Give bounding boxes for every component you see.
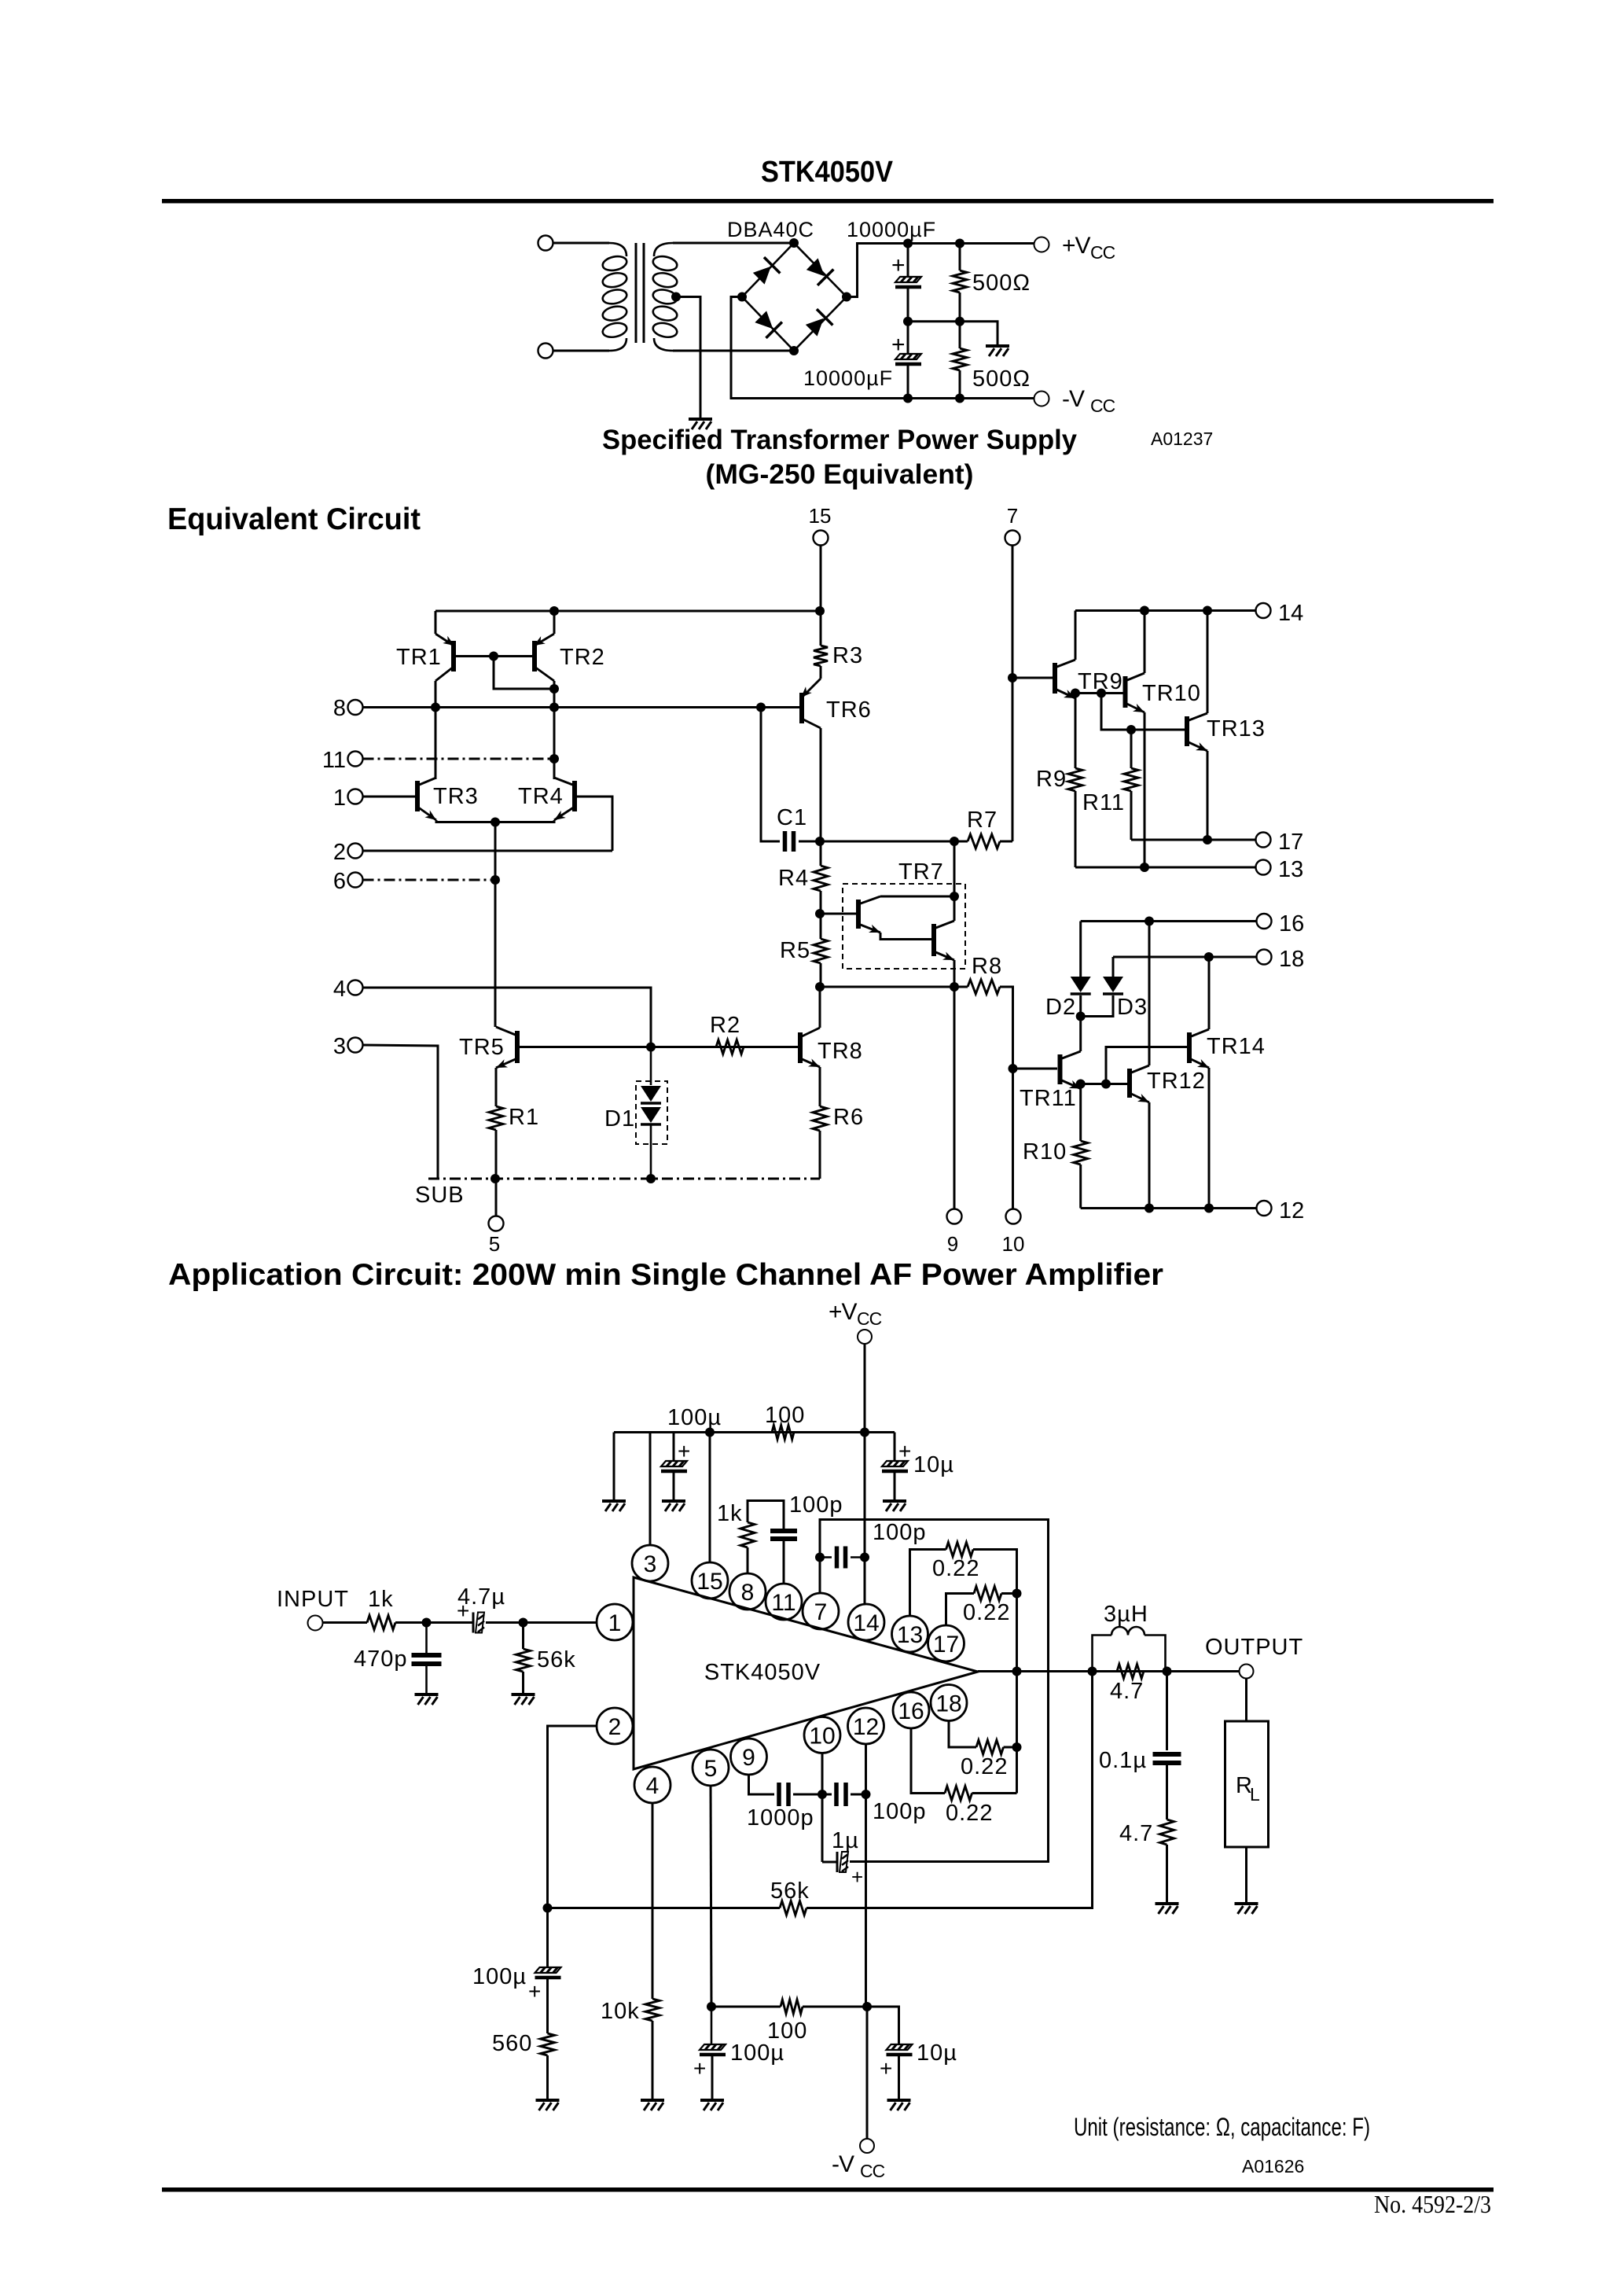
terminal -Vcc: [1034, 392, 1049, 407]
mid rail: [908, 322, 998, 344]
wire R9 bottom lead: [1075, 791, 1077, 867]
node R- bottom: [955, 394, 964, 403]
ground 470p: [415, 1694, 439, 1705]
svg-text:STK4050V: STK4050V: [761, 156, 894, 189]
transistor TR13: [1187, 713, 1209, 755]
wire C1 left branch: [761, 708, 780, 842]
node TR13 base R11: [1126, 725, 1136, 734]
svg-text:CC: CC: [857, 1308, 882, 1329]
wire pin18 down: [949, 1721, 976, 1748]
wire R6 to SUB: [819, 1131, 821, 1179]
capacitor 100p pin11: [770, 1531, 797, 1539]
terminal IC pin 4: [634, 1767, 671, 1803]
resistor 4.7 zobel: [1160, 1820, 1174, 1845]
transistor TR7a: [858, 896, 882, 936]
svg-text:R4: R4: [778, 866, 809, 891]
svg-text:0.1µ: 0.1µ: [1099, 1748, 1147, 1773]
node bridge plus: [842, 293, 851, 302]
wire C1 to node: [799, 841, 820, 843]
wire output to 0.1u: [1166, 1672, 1168, 1751]
wire SUB rail dashdot: [428, 1178, 820, 1180]
svg-text:100: 100: [765, 1403, 805, 1428]
terminal IC pin 2: [597, 1708, 633, 1744]
transistor TR3: [417, 778, 439, 823]
node mid left: [903, 317, 913, 326]
wire rail to pin3: [649, 1433, 652, 1546]
inductor 3uH: [1093, 1636, 1112, 1672]
capacitor 100u NFB: [535, 1967, 561, 1978]
wire TR13 collector up: [1207, 611, 1209, 714]
wire node to 56k: [522, 1623, 524, 1650]
svg-text:11: 11: [322, 748, 346, 773]
resistor 100 bottom: [781, 2000, 803, 2014]
wire 1k 100p bridge: [748, 1501, 784, 1529]
transistor TR4: [552, 778, 575, 824]
wire 100p to pin11: [783, 1541, 785, 1584]
wire 10u to ground: [894, 1472, 896, 1499]
node R10 top: [1076, 1080, 1086, 1089]
terminal input: [308, 1616, 323, 1631]
wire TR11 base: [1013, 1068, 1058, 1070]
wire TR8 emitter to R6: [819, 1067, 821, 1106]
svg-text:9: 9: [947, 1232, 958, 1256]
svg-text:-V: -V: [1062, 386, 1085, 412]
ground zobel: [1156, 1904, 1179, 1914]
node -Vcc branch: [862, 2002, 872, 2011]
node secondary center tap: [671, 293, 681, 302]
svg-text:100µ: 100µ: [472, 1964, 527, 1989]
svg-text:TR7: TR7: [898, 859, 944, 885]
svg-text:R11: R11: [1082, 790, 1125, 815]
wire pin12 down to -Vcc: [865, 1744, 867, 2007]
node +Vcc rail: [860, 1428, 869, 1437]
terminal IC pin 3: [632, 1545, 668, 1581]
resistor 560: [541, 2033, 555, 2055]
svg-text:INPUT: INPUT: [277, 1587, 349, 1612]
resistor R1: [489, 1106, 503, 1130]
wire R7 right: [1000, 841, 1012, 843]
svg-text:+: +: [693, 2056, 706, 2081]
svg-text:500Ω: 500Ω: [972, 366, 1031, 392]
node 100p right: [860, 1553, 869, 1562]
wire pin11 dashdot: [363, 758, 555, 760]
diode D1: [650, 1047, 652, 1086]
wire R8 right to pin10: [1000, 987, 1013, 1209]
wire TR13 base: [1131, 729, 1185, 731]
wire secondary bottom to bridge: [673, 350, 794, 352]
wire primary top lead: [553, 242, 609, 245]
svg-text:8: 8: [333, 696, 346, 721]
wire pin5 down: [711, 1786, 711, 2007]
wire output line: [978, 1670, 1247, 1672]
svg-text:+V: +V: [829, 1299, 858, 1325]
svg-text:0.22: 0.22: [961, 1754, 1008, 1779]
svg-text:+: +: [678, 1439, 690, 1463]
wire pin8 rail: [363, 706, 800, 708]
wire TR4 base riser: [575, 797, 612, 851]
svg-text:3: 3: [333, 1034, 346, 1059]
terminal IC pin 10: [804, 1717, 840, 1753]
svg-text:10000µF: 10000µF: [803, 366, 893, 390]
resistor 1k: [740, 1522, 755, 1547]
svg-text:+V: +V: [1062, 233, 1091, 259]
wire R5 to node: [820, 963, 822, 987]
transformer T1 core: [636, 243, 644, 343]
terminal IC pin 5: [693, 1750, 729, 1786]
wire 56k NFB right: [806, 1672, 1093, 1908]
svg-text:56k: 56k: [537, 1647, 576, 1672]
terminal +Vcc app: [858, 1330, 872, 1344]
resistor 500ohm upper: [953, 270, 967, 293]
transformer T1 primary terminal top: [538, 236, 553, 251]
resistor 0.22 a: [946, 1543, 974, 1557]
bridge diode upper-right: [804, 256, 833, 285]
terminal IC pin 14: [848, 1604, 884, 1640]
wire TR1 TR2 base tie: [454, 655, 535, 657]
node bridge AC bottom: [789, 346, 799, 355]
wire node to R5: [820, 914, 822, 939]
wire pin16 rail: [1081, 920, 1257, 922]
wire node to 100: [711, 2006, 781, 2008]
svg-text:(MG-250 Equivalent): (MG-250 Equivalent): [706, 459, 974, 490]
resistor 56k input: [516, 1649, 531, 1672]
resistor R6: [813, 1106, 827, 1131]
wire to pin1: [524, 1621, 597, 1624]
terminal IC pin 7: [803, 1593, 839, 1629]
svg-text:100p: 100p: [873, 1799, 927, 1824]
transistor TR6: [798, 679, 821, 728]
node TR1 collector on rail8: [431, 703, 440, 712]
svg-text:9: 9: [742, 1745, 755, 1771]
svg-text:100µ: 100µ: [730, 2040, 784, 2066]
wire pin7 to TR9 base: [1012, 677, 1053, 679]
resistor R10: [1074, 1141, 1088, 1165]
ground 560: [536, 2100, 560, 2110]
svg-text:0.22: 0.22: [932, 1556, 979, 1581]
svg-text:1: 1: [333, 786, 346, 811]
wire pin10 down: [821, 1753, 824, 1863]
svg-text:L: L: [1250, 1784, 1260, 1805]
terminal IC pin 13: [892, 1616, 928, 1652]
capacitor 470p: [425, 1623, 428, 1656]
resistor 0.22 c: [976, 1740, 1004, 1754]
node TR2 collector tie: [549, 684, 559, 694]
wire pin9 riser: [953, 987, 956, 1209]
wire TR13 emitter down: [1207, 751, 1209, 840]
svg-text:1k: 1k: [368, 1587, 394, 1612]
wire pin2 down: [548, 1726, 597, 1967]
capacitor 0.1u: [1153, 1754, 1181, 1763]
svg-text:STK4050V: STK4050V: [704, 1660, 821, 1685]
node R11 branch: [1097, 689, 1106, 698]
svg-text:SUB: SUB: [415, 1183, 465, 1208]
node decouple minus: [707, 2002, 716, 2011]
resistor 500ohm lower: [953, 348, 967, 370]
node bus b: [1012, 1589, 1022, 1599]
node C+ top: [903, 239, 913, 248]
node D2 D3 join: [1076, 1012, 1086, 1021]
wire 56k NFB rail: [548, 1907, 781, 1909]
terminal pin 1: [348, 789, 363, 804]
node R4 R5 TR7 base: [815, 909, 825, 918]
svg-text:100p: 100p: [873, 1520, 927, 1545]
terminal pin 9: [947, 1209, 962, 1224]
svg-text:8: 8: [741, 1580, 755, 1606]
svg-text:+: +: [851, 1865, 863, 1889]
capacitor 10u bottom: [887, 2044, 913, 2055]
wire cap to mid rail: [907, 289, 909, 322]
node pin12 100p: [862, 1790, 871, 1799]
svg-text:17: 17: [1278, 830, 1303, 855]
wire pin14 rail: [1075, 609, 1256, 612]
ground 56k input: [512, 1694, 535, 1705]
wire node to 4.7u: [427, 1621, 474, 1624]
svg-text:16: 16: [1279, 911, 1304, 936]
svg-text:A01626: A01626: [1242, 2156, 1304, 2176]
wire R1 to SUB rail: [495, 1130, 498, 1179]
node R7 left: [950, 837, 959, 846]
wire 100u to ground: [673, 1472, 675, 1499]
capacitor 1000p: [779, 1783, 788, 1806]
wire rail to ground left: [613, 1433, 615, 1500]
wire TR1 TR2 emitter rail: [435, 610, 821, 613]
wire TR5 base line: [517, 1046, 798, 1048]
resistor R5: [814, 939, 828, 963]
svg-text:7: 7: [1007, 504, 1018, 528]
capacitor C1: [785, 831, 794, 852]
svg-text:R2: R2: [710, 1013, 740, 1038]
terminal IC pin 17: [928, 1625, 964, 1661]
svg-text:15: 15: [696, 1569, 722, 1595]
terminal IC pin 8: [729, 1573, 766, 1610]
node coil left: [1088, 1667, 1097, 1676]
svg-text:TR6: TR6: [826, 697, 872, 723]
svg-text:2: 2: [608, 1714, 622, 1740]
capacitor 100p bottom: [836, 1783, 846, 1806]
svg-text:16: 16: [898, 1698, 924, 1724]
terminal +Vcc: [1034, 237, 1049, 252]
wire pin18 to D3: [1112, 957, 1115, 977]
node 56k input: [519, 1618, 528, 1628]
wire rail to TR9 collector: [1075, 611, 1077, 660]
wire R10 top lead: [1079, 1084, 1082, 1142]
node TR10 emitter pin13: [1140, 863, 1149, 872]
resistor R8: [968, 980, 1000, 994]
wire TR7b emitter down: [953, 960, 956, 987]
node TR13 emitter pin17: [1203, 835, 1212, 844]
resistor 4.7 damping: [1117, 1665, 1144, 1679]
bridge rectifier DBA40C outline: [742, 243, 847, 351]
svg-text:D2: D2: [1045, 995, 1076, 1020]
svg-text:TR10: TR10: [1142, 681, 1201, 706]
terminal output: [1240, 1665, 1254, 1679]
wire TR6 collector down: [820, 728, 822, 841]
terminal pin 7: [1005, 531, 1020, 546]
wire pin18 rail: [1113, 956, 1257, 959]
wire TR11 emitter to TR12 base: [1081, 1084, 1127, 1089]
svg-text:TR14: TR14: [1207, 1034, 1266, 1059]
wire 1k to node: [395, 1621, 427, 1624]
node bus c: [1012, 1742, 1022, 1752]
ground 100u: [662, 1501, 685, 1511]
node TR2 collector on rail8: [549, 703, 559, 712]
svg-text:10µ: 10µ: [913, 1452, 954, 1477]
wire pin9 to 1000p: [749, 1775, 775, 1794]
transistor TR8: [800, 1028, 821, 1071]
-Vcc rail: [908, 397, 1034, 399]
node R5 R8 pin9: [815, 982, 825, 992]
wire 1000p to node: [793, 1794, 822, 1796]
wire rail to 100u: [673, 1433, 675, 1461]
ground RL: [1235, 1904, 1258, 1914]
wire right bus: [973, 1550, 1017, 1794]
wire lower cap to -rail: [907, 366, 909, 399]
svg-text:4.7: 4.7: [1110, 1679, 1144, 1704]
node C1 R4: [815, 837, 825, 846]
transistor TR12: [1130, 1065, 1151, 1106]
node TR9 base tap: [1008, 673, 1017, 683]
wire node to 100p: [822, 1794, 832, 1796]
svg-text:R5: R5: [780, 938, 810, 963]
wire R3 to TR6 emitter: [820, 666, 822, 679]
wire rail to R3: [820, 611, 822, 646]
terminal pin 12: [1257, 1201, 1272, 1216]
box TR7 dashed: [843, 884, 965, 969]
terminal pin 10: [1006, 1209, 1021, 1224]
svg-text:D1: D1: [604, 1106, 635, 1131]
wire pin7 loop to 1u: [820, 1520, 1049, 1862]
svg-text:18: 18: [1279, 947, 1304, 972]
transistor TR11: [1060, 1051, 1082, 1093]
wire 56k to ground: [522, 1672, 524, 1693]
svg-text:No. 4592-2/3: No. 4592-2/3: [1374, 2190, 1491, 2218]
node pin6 junction: [491, 875, 500, 885]
terminal pin 5: [489, 1216, 504, 1231]
box D1 dashed: [636, 1081, 667, 1144]
svg-text:0.22: 0.22: [963, 1600, 1010, 1625]
wire pin13 up: [910, 1550, 946, 1617]
node R8 left: [950, 982, 959, 992]
wire 0.22d right: [972, 1792, 1017, 1794]
svg-text:D3: D3: [1117, 995, 1148, 1020]
terminal pin 8: [348, 700, 363, 715]
resistor R9: [1068, 768, 1082, 791]
node TR13 collector rail: [1203, 606, 1212, 616]
wire 0.22b right: [1001, 1592, 1017, 1595]
terminal pin 17: [1256, 833, 1271, 848]
wire R11 branch: [1101, 694, 1131, 730]
svg-text:10µ: 10µ: [917, 2040, 957, 2066]
terminal IC pin 11: [766, 1584, 802, 1620]
wire TR14 collector up: [1208, 957, 1211, 1029]
ground center tap: [689, 419, 712, 429]
node pin15 rail: [705, 1428, 715, 1437]
wire pin16 to D2: [1079, 922, 1082, 977]
node mid right: [955, 317, 964, 326]
terminal pin 15: [814, 531, 829, 546]
+Vcc rail: [908, 242, 1034, 245]
wire RL to ground: [1245, 1847, 1247, 1902]
resistor 0.22 b: [974, 1587, 1001, 1601]
svg-text:10000µF: 10000µF: [847, 218, 936, 241]
svg-text:10: 10: [1002, 1232, 1025, 1256]
transformer T1 secondary winding: [652, 243, 678, 351]
wire supply rail y1822: [614, 1431, 895, 1433]
terminal pin 11: [348, 752, 363, 767]
terminal pin 4: [348, 981, 363, 995]
terminal IC pin 16: [893, 1692, 929, 1728]
node pin11 junction: [549, 754, 559, 763]
node pin10 1000p: [818, 1790, 827, 1799]
svg-text:1k: 1k: [717, 1501, 743, 1526]
wire 560 to ground: [546, 2055, 549, 2099]
wire TR2 base-collector tie: [494, 657, 554, 690]
bridge diode lower-left: [753, 309, 782, 338]
svg-text:-V: -V: [832, 2151, 854, 2177]
svg-text:10: 10: [809, 1724, 835, 1750]
node R1 SUB junction: [491, 1174, 500, 1183]
wire D2 to TR11 collector: [1079, 995, 1082, 1051]
node TR14 collector rail: [1204, 952, 1214, 962]
resistor R7: [968, 834, 1000, 848]
svg-text:500Ω: 500Ω: [972, 270, 1031, 296]
node D1 top junction: [646, 1043, 656, 1052]
wire R5 node to R8 node: [820, 986, 954, 988]
terminal IC pin 1: [597, 1604, 633, 1640]
wire pin13 line: [1075, 867, 1256, 869]
transistor TR10: [1126, 673, 1147, 716]
wire TR1 emitter up: [435, 611, 437, 634]
wire 10k to ground: [652, 2021, 654, 2099]
svg-text:10k: 10k: [601, 1999, 640, 2024]
wire bridge plus to +Vcc rail: [847, 244, 908, 297]
node D1 SUB junction: [646, 1174, 656, 1183]
wire TR12 emitter down: [1148, 1102, 1151, 1209]
ground 10u bottom: [887, 2100, 911, 2110]
node TR12 emitter pin12: [1145, 1204, 1154, 1213]
svg-text:+: +: [457, 1599, 469, 1623]
svg-text:Unit (resistance: Ω, capacitan: Unit (resistance: Ω, capacitance: F): [1074, 2113, 1370, 2141]
wire pin2 to TR4 base: [363, 850, 613, 852]
terminal IC pin 9: [731, 1739, 767, 1775]
transistor TR9: [1055, 660, 1077, 702]
wire R11 bottom lead: [1130, 791, 1133, 840]
svg-text:R6: R6: [833, 1105, 864, 1130]
load RL: [1225, 1721, 1269, 1847]
resistor 10k: [645, 1999, 660, 2021]
terminal IC pin 12: [848, 1708, 884, 1744]
node bus output: [1012, 1667, 1022, 1676]
wire to 1u: [822, 1861, 837, 1864]
wire 500ohm to mid rail: [959, 293, 961, 322]
ground 10u top: [883, 1501, 906, 1511]
wire primary bottom lead: [553, 350, 609, 352]
wire 100u to 560: [546, 1978, 549, 2033]
wire TR9 emitter to TR10 base: [1075, 694, 1123, 699]
wire 1k to pin8: [747, 1547, 749, 1573]
svg-text:+: +: [898, 1439, 911, 1463]
node C1 branch on rail8: [756, 703, 766, 712]
svg-text:100: 100: [767, 2018, 807, 2044]
svg-text:CC: CC: [1090, 396, 1115, 416]
wire center tap to ground: [676, 297, 700, 418]
wire TR1 collector down: [435, 681, 437, 708]
ground rail left: [602, 1501, 626, 1511]
wire pin16 down: [911, 1728, 945, 1794]
wire 100p to pin12 line: [851, 1794, 866, 1796]
svg-text:100p: 100p: [789, 1492, 843, 1518]
svg-text:18: 18: [935, 1691, 961, 1717]
